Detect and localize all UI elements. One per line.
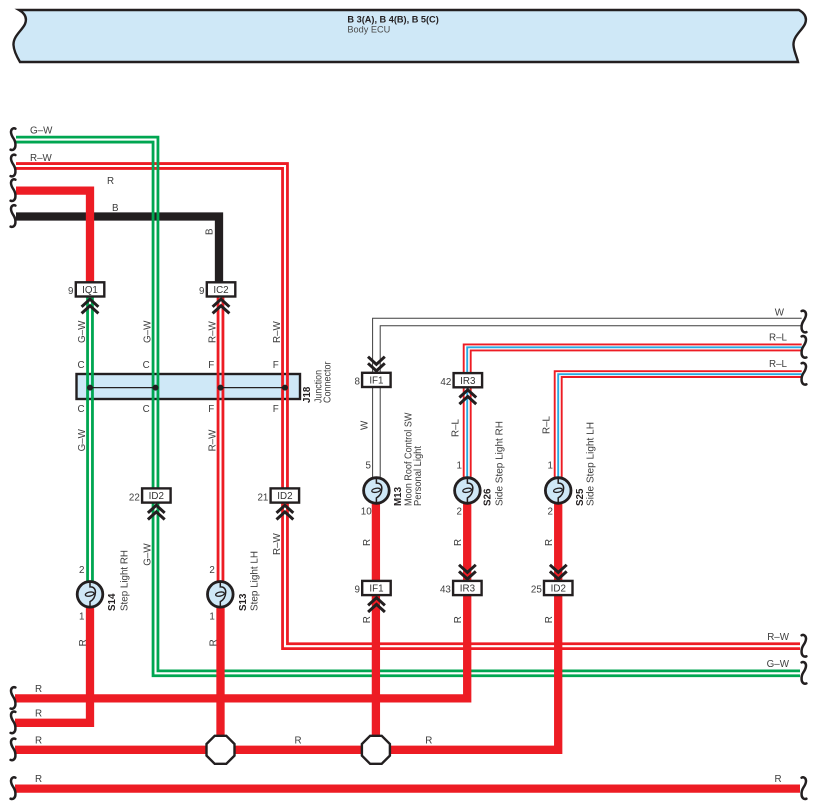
svg-text:R: R [107,176,114,187]
svg-text:R: R [775,774,782,785]
connector ID2 pin 21 [271,488,300,502]
svg-text:S26: S26 [483,488,494,506]
svg-text:ID2: ID2 [277,491,292,502]
wire R-L from IR3(42) to lamp S26 [463,387,465,478]
svg-text:C: C [77,360,84,371]
svg-text:B: B [112,203,119,214]
svg-text:ID2: ID2 [551,584,566,595]
svg-text:5: 5 [366,460,372,471]
svg-text:C: C [143,404,150,415]
svg-text:R: R [544,539,555,546]
wire G-W from left edge down through J18 to ID2(22) [16,137,158,488]
svg-text:G–W: G–W [30,126,53,137]
svg-text:9: 9 [199,286,204,297]
svg-text:C: C [143,360,150,371]
wire R thick from left edge to IQ1 [16,191,90,283]
svg-text:R: R [35,684,42,695]
svg-text:1: 1 [457,460,462,471]
connector arrows below ID2(22) [148,505,165,513]
svg-text:21: 21 [257,492,268,503]
svg-text:9: 9 [355,585,360,596]
svg-text:M13: M13 [393,486,404,506]
svg-text:R–W: R–W [30,153,53,164]
svg-text:Personal Light: Personal Light [413,446,424,506]
wire R-L from right edge to IR3(42) [464,344,802,373]
wire R from IF1(9) down to octagon joint [372,595,380,750]
connector arrows above IR3(43) [459,565,476,573]
torn end G-W left [11,128,16,150]
svg-text:10: 10 [361,507,372,518]
lamp M13 Moon Roof Control SW Personal Light [364,478,390,504]
node on wire 4 in J18 [282,385,288,391]
svg-text:IQ1: IQ1 [82,285,98,296]
wire R-W from left edge down through J18 to ID2(21) [16,164,287,489]
connector IR3 pin 43 [453,581,482,595]
lamp S25 Side Step Light LH [545,478,571,504]
svg-text:43: 43 [440,585,451,596]
wire R-L from right edge to lamp S25 [555,371,802,478]
connector ID2 pin 25 [544,581,573,595]
svg-text:R–L: R–L [542,415,553,434]
connector arrows above ID2(25) [550,565,567,573]
torn end B left [11,205,16,227]
svg-text:F: F [273,360,279,371]
Body ECU block B3(A)/B4(B)/B5(C) [13,10,805,62]
node on wire 3 in J18 [218,385,224,391]
svg-text:R: R [295,735,302,746]
connector IF1 pin 9 [362,581,391,595]
torn end R-L right 1 [802,336,807,358]
wire B thick from left edge to IC2 [16,217,219,283]
connector IF1 pin 8 [362,373,391,387]
svg-text:1: 1 [209,612,214,623]
junction connector J18 [77,374,301,399]
svg-text:B 3(A), B 4(B), B 5(C): B 3(A), B 4(B), B 5(C) [347,14,438,24]
node on wire 2 in J18 [153,385,159,391]
svg-text:R: R [544,616,555,623]
connector arrows below IQ1 [82,299,99,307]
connector arrows below IR3(42) [459,390,476,398]
wire R from lamp S25 to ID2(25) [554,503,562,581]
svg-text:J18: J18 [302,386,313,403]
svg-text:IF1: IF1 [369,376,383,387]
wire R from lamp S13 down to octagon joint [216,606,224,750]
svg-text:R–L: R–L [769,359,788,370]
svg-text:2: 2 [548,507,553,518]
svg-text:2: 2 [79,565,84,576]
wire G-W bottom horizontal from ID2(22) to right edge [158,503,800,671]
svg-text:G–W: G–W [767,659,790,670]
svg-text:Step Light LH: Step Light LH [250,551,261,611]
svg-text:W: W [359,420,370,430]
J18 internal bus bars and joints [90,387,156,389]
connector arrows above IF1(8) [368,357,385,365]
svg-text:Side Step Light LH: Side Step Light LH [586,422,597,506]
svg-text:9: 9 [68,286,73,297]
splice joint octagon on bus 3 (S13 branch) [207,736,235,764]
svg-text:2: 2 [209,565,214,576]
svg-text:Connector: Connector [322,361,333,403]
svg-text:B: B [205,228,216,235]
svg-text:25: 25 [531,585,542,596]
torn end R-W left [11,155,16,177]
wire R from lamp M13 to IF1(9) [372,503,380,581]
torn end bus2 left [11,712,16,734]
lamp S26 Side Step Light RH [455,478,481,504]
svg-text:R: R [425,735,432,746]
svg-text:R: R [35,774,42,785]
wire R bus 3 from left edge up to ID2(25) [15,595,558,750]
wire W from right edge to IF1(8) [373,318,802,373]
connector arrows below IC2 [213,299,230,307]
wire R-W from IC2 to lamp S13 [222,295,225,582]
lamp S13 Step Light LH [208,582,234,608]
connector ID2 pin 22 [142,488,171,502]
svg-text:R: R [453,539,464,546]
svg-text:R–L: R–L [451,418,462,437]
lamp S14 Step Light RH [77,582,103,608]
svg-text:IR3: IR3 [460,376,476,387]
connector IR3 pin 42 [454,373,483,387]
svg-text:Step Light RH: Step Light RH [119,550,130,611]
svg-text:IC2: IC2 [213,285,228,296]
connector arrows below IF1(9) [368,598,385,606]
svg-text:1: 1 [79,612,84,623]
svg-text:F: F [208,404,214,415]
torn end bus3 left [11,739,16,761]
wire R from lamp S14 down to bus 2 [15,606,90,723]
svg-text:W: W [775,308,785,319]
svg-text:IR3: IR3 [460,584,476,595]
wire G-W from IQ1 to lamp S14 [91,295,94,582]
svg-text:R: R [35,735,42,746]
connector IC2 pin 9 [207,282,236,296]
torn end R-L right 2 [802,363,807,385]
svg-text:S14: S14 [107,593,118,611]
wire R from lamp S26 to IR3(43) [463,503,471,581]
torn end W right [802,311,807,333]
svg-text:IF1: IF1 [369,584,383,595]
svg-text:R: R [35,708,42,719]
wire R bus 4 along the bottom [15,784,800,792]
wire W from IF1(8) to lamp M13 [372,387,374,478]
svg-text:S13: S13 [238,593,249,611]
torn end R left [11,179,16,201]
torn end bus4 right [802,777,807,799]
svg-text:22: 22 [129,492,140,503]
svg-text:R: R [362,616,373,623]
splice joint octagon on bus 3 (M13 branch) [362,736,390,764]
node on wire 1 in J18 [87,385,93,391]
connector arrows below ID2(21) [277,505,294,513]
torn end R-W right [802,635,807,657]
torn end bus1 left [11,687,16,709]
svg-text:S25: S25 [575,488,586,506]
wire R bus 1 from left edge up to IR3(43) [15,595,467,699]
svg-text:Body ECU: Body ECU [347,24,390,34]
svg-text:8: 8 [354,377,360,388]
svg-text:1: 1 [548,460,553,471]
torn end G-W right [802,662,807,684]
svg-text:42: 42 [440,377,451,388]
connector IQ1 pin 9 [76,282,105,296]
svg-text:R: R [453,616,464,623]
svg-text:ID2: ID2 [149,491,164,502]
wire R-W bottom horizontal from ID2(21) to right edge [287,503,800,644]
svg-text:R–L: R–L [769,333,788,344]
svg-text:C: C [77,404,84,415]
svg-text:R: R [362,539,373,546]
torn end bus4 left [11,777,16,799]
svg-text:F: F [273,404,279,415]
svg-text:F: F [208,360,214,371]
svg-text:2: 2 [457,507,462,518]
svg-text:R–W: R–W [767,632,790,643]
svg-text:Side Step Light RH: Side Step Light RH [494,421,505,506]
